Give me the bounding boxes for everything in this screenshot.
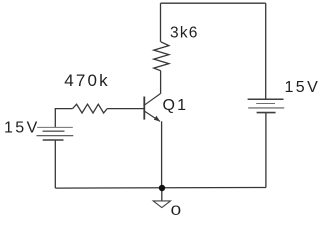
node junction dot <box>159 185 165 191</box>
ground symbol <box>153 201 170 208</box>
V2 plate long <box>248 107 284 109</box>
Q1 emitter diagonal <box>145 111 160 121</box>
svg-text:0: 0 <box>171 202 182 217</box>
wire left upper <box>55 109 72 128</box>
wire left lower <box>54 140 56 188</box>
resistor R1 470k <box>73 104 108 113</box>
V1 plate short bottom <box>43 139 64 141</box>
wire right rail upper <box>265 3 267 99</box>
wire ground stub <box>161 188 163 201</box>
Q1 collector diagonal <box>145 94 161 105</box>
svg-text:15V: 15V <box>4 120 40 137</box>
wire base lead <box>107 108 143 110</box>
Q1 base bar <box>143 97 145 120</box>
V1 plate short <box>43 130 65 132</box>
V2 plate short bottom <box>257 112 276 114</box>
Q1 emitter arrow <box>154 116 160 122</box>
wire collector to transistor <box>160 71 162 94</box>
wire emitter down <box>161 121 163 188</box>
svg-text:15V: 15V <box>285 79 321 96</box>
V1 plate long bottom <box>37 135 74 137</box>
svg-text:470k: 470k <box>64 71 110 90</box>
resistor R2 3k6 <box>154 42 169 71</box>
V2 plate long top <box>248 98 284 100</box>
transistor Q1 <box>144 94 160 122</box>
wire collector upper lead <box>160 3 162 42</box>
V1 plate long top <box>37 126 73 128</box>
svg-text:3k6: 3k6 <box>170 25 199 42</box>
battery V1 (left 15V) <box>37 127 74 140</box>
svg-text:Q1: Q1 <box>163 97 189 114</box>
wire bottom rail <box>55 187 266 190</box>
wire top rail <box>161 2 266 4</box>
battery V2 (right 15V) <box>248 99 285 112</box>
V2 plate short <box>256 103 275 105</box>
wire right rail lower <box>265 113 267 188</box>
